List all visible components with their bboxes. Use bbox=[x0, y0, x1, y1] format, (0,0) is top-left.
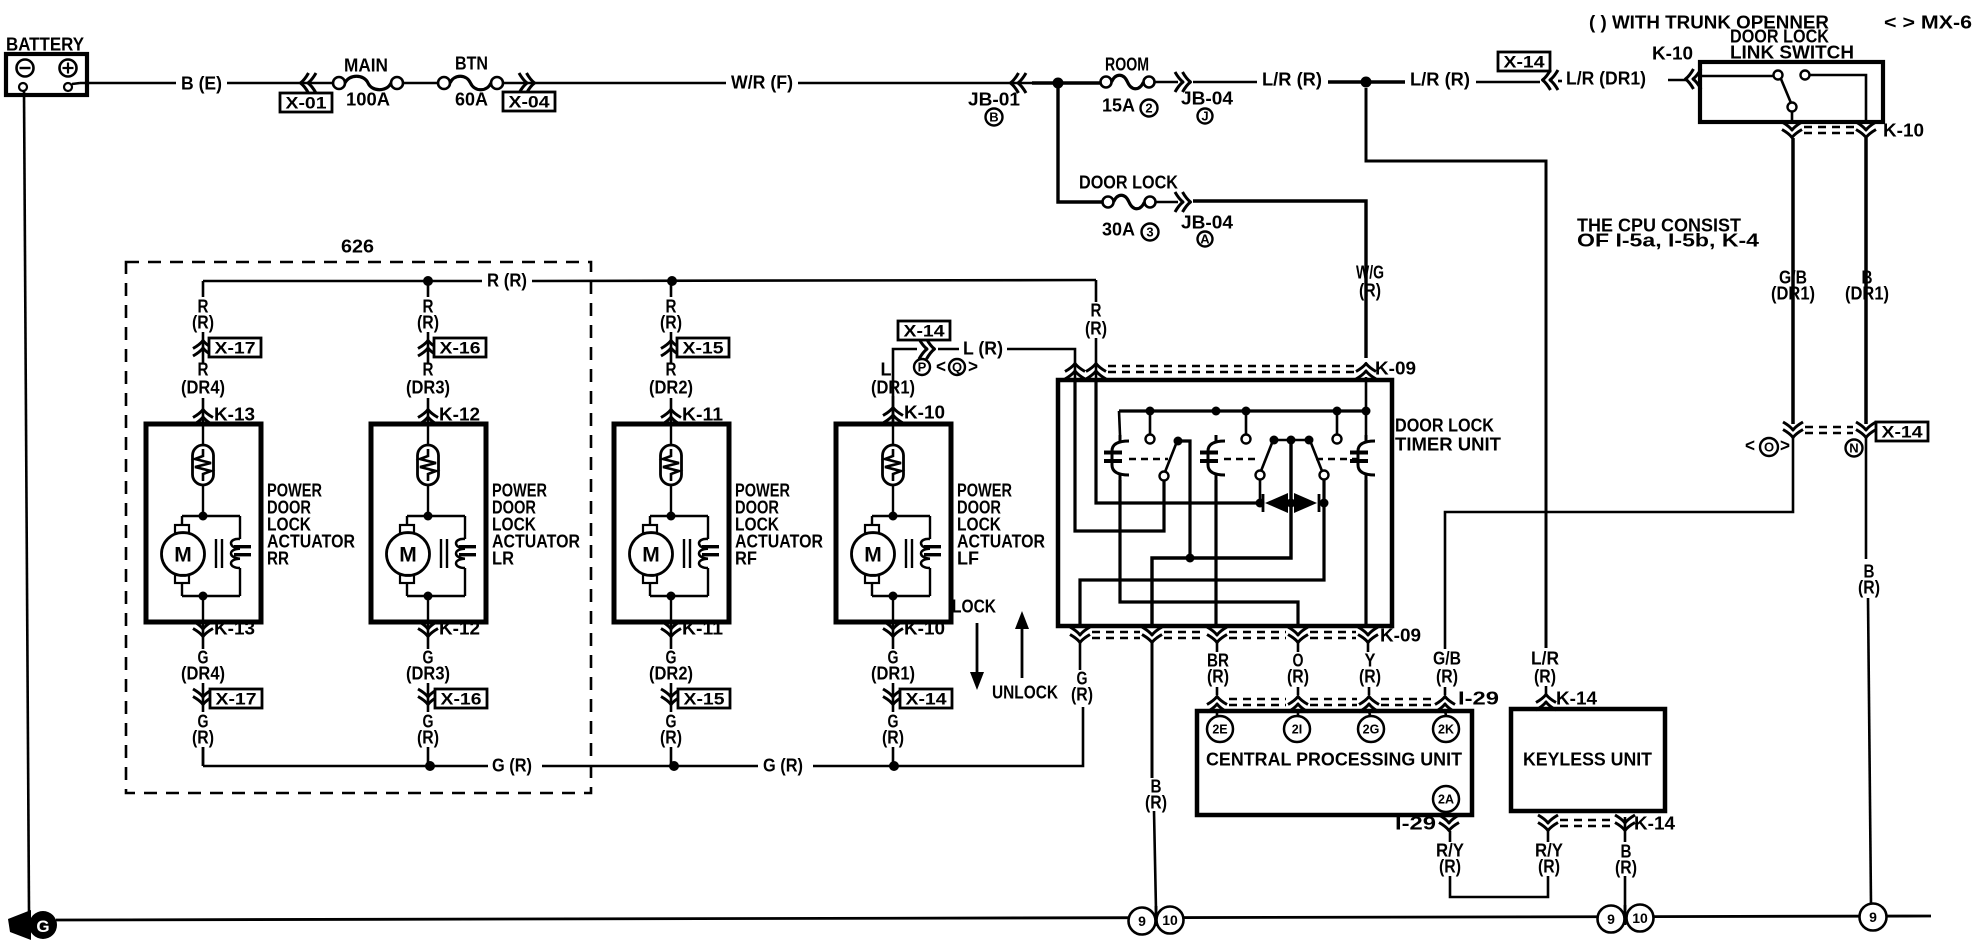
connector K-14 tie dashes (bottom) bbox=[1560, 819, 1613, 821]
relay switch 1 pivot bbox=[1174, 437, 1183, 446]
ground node 9 (mid) bbox=[1598, 906, 1625, 933]
circled N marker bbox=[1846, 440, 1863, 457]
svg-text:X-14: X-14 bbox=[1504, 52, 1546, 71]
wire to X-15 (RF bottom) bbox=[670, 683, 673, 712]
wire B (R) down to ground bbox=[1865, 438, 1868, 559]
diode D1 bbox=[1262, 494, 1265, 512]
svg-text:O: O bbox=[1764, 440, 1774, 455]
svg-text:30A: 30A bbox=[1102, 219, 1135, 240]
connector JB-04 circled J bbox=[1198, 109, 1213, 124]
wire X-14 to L/R(DR1) label bbox=[1558, 80, 1562, 83]
connector I-29 tie dashes 1 bbox=[1229, 698, 1286, 700]
wire B(E) to X-01 bbox=[227, 82, 334, 85]
svg-text:(DR2): (DR2) bbox=[649, 377, 693, 398]
svg-text:R (R): R (R) bbox=[487, 270, 527, 291]
svg-text:2G: 2G bbox=[1363, 723, 1380, 737]
connector X-14 chevron (top) bbox=[1543, 70, 1559, 90]
wire out of actuator LF bottom bbox=[892, 622, 895, 649]
svg-text:(R): (R) bbox=[192, 727, 214, 748]
connector K-11 chevron (RF bottom) bbox=[661, 621, 681, 637]
relay center switch pivot left bbox=[1270, 436, 1279, 445]
wire G/B (DR1) bbox=[1791, 138, 1795, 424]
fuse MAIN 100A bbox=[333, 77, 345, 89]
wire 2G stub bbox=[1369, 710, 1370, 716]
connector X-04 chevron bbox=[519, 73, 535, 93]
wire 2I stub bbox=[1297, 710, 1300, 716]
svg-text:(R): (R) bbox=[417, 312, 439, 333]
svg-text:(DR3): (DR3) bbox=[406, 377, 450, 398]
switch moving contact bbox=[1788, 103, 1797, 112]
svg-text:(DR1): (DR1) bbox=[871, 377, 915, 398]
wire W/R to JB-01 bbox=[798, 82, 1032, 85]
svg-text:(R): (R) bbox=[1615, 857, 1637, 878]
connector K-10 chevron (LF top) bbox=[883, 408, 903, 424]
junction node diode left bbox=[1256, 499, 1265, 508]
svg-text:M: M bbox=[174, 544, 192, 567]
svg-text:(R): (R) bbox=[882, 727, 904, 748]
wire Y output bbox=[1367, 643, 1370, 652]
connector X-17 chevron (RR top) bbox=[193, 341, 213, 357]
svg-text:RR: RR bbox=[267, 548, 289, 569]
wire out of actuator RF bottom bbox=[670, 622, 673, 649]
connector K-11 chevron (RF top) bbox=[661, 410, 681, 426]
connector K-10 chevron left (below switch) bbox=[1782, 122, 1802, 138]
connector I-29 chevron x1298 bbox=[1288, 697, 1308, 713]
wire into K-11 (RF) bbox=[670, 398, 673, 424]
connector K-09 tie dashes (top) bbox=[1108, 365, 1354, 367]
wire out of actuator RR bottom bbox=[202, 622, 205, 649]
junction node bus contact2 bbox=[1242, 407, 1251, 416]
wire LR to ground rail bbox=[427, 747, 430, 766]
wire junction to second L/R label bbox=[1366, 80, 1405, 83]
connector X-14 chevron right (B) bbox=[1856, 422, 1876, 438]
svg-text:K-12: K-12 bbox=[439, 404, 480, 425]
door lock timer unit box bbox=[1058, 380, 1392, 626]
svg-text:X-15: X-15 bbox=[684, 689, 725, 708]
wire B output lower bbox=[1154, 811, 1156, 910]
cpu pin 2I bbox=[1284, 716, 1310, 742]
connector X-01 label box bbox=[280, 93, 332, 112]
svg-text:(R): (R) bbox=[1538, 856, 1560, 877]
svg-text:15A: 15A bbox=[1102, 95, 1135, 116]
svg-text:(R): (R) bbox=[1287, 666, 1309, 687]
switch common contact bbox=[1774, 71, 1783, 80]
svg-text:(DR3): (DR3) bbox=[406, 663, 450, 684]
wire fuse to JB-04 (door lock) bbox=[1156, 201, 1178, 204]
wire bus stub contact3 bbox=[1336, 411, 1339, 434]
wire R/Y U link bbox=[1450, 876, 1548, 897]
central processing unit box bbox=[1197, 711, 1472, 815]
svg-text:10: 10 bbox=[1162, 912, 1178, 928]
relay actuation dashed link 2 bbox=[1224, 458, 1260, 460]
wire coil1 to O output bbox=[1120, 480, 1298, 626]
svg-text:X-14: X-14 bbox=[1882, 422, 1924, 441]
connector X-17 label box (RR bottom) bbox=[210, 689, 262, 708]
wire right contact drop bbox=[1080, 479, 1324, 626]
ground G symbol bbox=[8, 910, 31, 940]
wire ground rail right bbox=[813, 707, 1083, 766]
relay coil 2 (unlock) bbox=[1208, 441, 1225, 475]
svg-text:K-14: K-14 bbox=[1556, 688, 1598, 709]
wire to X-16 (LR top) bbox=[427, 332, 430, 363]
wire 2A out bbox=[1446, 812, 1447, 817]
svg-text:W/R (F): W/R (F) bbox=[731, 72, 793, 93]
svg-text:2E: 2E bbox=[1212, 723, 1227, 737]
connector I-29 chevron (2A) bbox=[1439, 815, 1459, 831]
svg-text:X-14: X-14 bbox=[904, 321, 946, 340]
svg-text:(R): (R) bbox=[660, 727, 682, 748]
fuse DOOR LOCK 30A bbox=[1103, 197, 1114, 208]
svg-text:626: 626 bbox=[341, 236, 374, 257]
svg-text:(R): (R) bbox=[1071, 684, 1093, 705]
relay coil 3 (timer) bbox=[1358, 441, 1375, 475]
svg-text:K-09: K-09 bbox=[1375, 358, 1416, 379]
wire G/B into I-29 bbox=[1444, 687, 1447, 695]
wire O to I-29 bbox=[1297, 687, 1300, 695]
svg-text:K-13: K-13 bbox=[214, 404, 255, 425]
svg-text:K-10: K-10 bbox=[1883, 120, 1924, 141]
connector K-09 tie dashes bottom 1 bbox=[1092, 631, 1140, 633]
svg-text:X-04: X-04 bbox=[509, 92, 551, 111]
ground node 9 (right) bbox=[1860, 904, 1887, 931]
junction node bus coil2 bbox=[1212, 407, 1221, 416]
relay switch 1 arm bbox=[1165, 444, 1176, 472]
relay center switch left arm bbox=[1261, 443, 1272, 471]
connector K-10 chevron (LF bottom) bbox=[883, 621, 903, 637]
connector K-14 chevron (keyless B) bbox=[1615, 815, 1635, 831]
connector JB-04 circled A bbox=[1198, 232, 1213, 247]
svg-text:<: < bbox=[1745, 435, 1755, 456]
connector X-14 chevron (LF) bbox=[919, 339, 935, 359]
wire R(R) down to timer bbox=[1095, 280, 1098, 302]
connector X-14 label box (LF) bbox=[898, 321, 950, 340]
connector X-15 label box (RF bottom) bbox=[678, 689, 730, 708]
svg-text:(DR1): (DR1) bbox=[871, 663, 915, 684]
svg-text:(R): (R) bbox=[1359, 280, 1381, 301]
relay actuation dashed link 1 bbox=[1129, 458, 1168, 460]
junction node bus W/G bbox=[1362, 407, 1371, 416]
svg-text:P: P bbox=[918, 360, 927, 375]
connector K-12 chevron (LR top) bbox=[418, 410, 438, 426]
wire battery negative down bbox=[24, 91, 29, 912]
svg-text:(R): (R) bbox=[1359, 666, 1381, 687]
connector X-04 label box bbox=[503, 92, 555, 111]
fuse ROOM 15A bbox=[1101, 77, 1112, 88]
wire between fuses bbox=[403, 82, 438, 85]
wire bottom ground rail bbox=[56, 916, 1931, 920]
svg-text:2A: 2A bbox=[1438, 793, 1454, 807]
cpu pin 2A bbox=[1433, 786, 1459, 812]
junction node rail RF bbox=[669, 761, 679, 771]
wire JB-01 to junction bbox=[1032, 81, 1058, 85]
svg-text:B (E): B (E) bbox=[181, 73, 222, 94]
svg-text:M: M bbox=[399, 544, 417, 567]
svg-text:K-10: K-10 bbox=[904, 618, 945, 639]
connector JB-01 circled B bbox=[986, 109, 1003, 126]
svg-text:(R): (R) bbox=[660, 312, 682, 333]
wire B output bbox=[1151, 643, 1154, 778]
wire out of actuator LR bottom bbox=[427, 622, 430, 649]
svg-text:B: B bbox=[989, 110, 998, 125]
wire L/R to junction bbox=[1328, 80, 1366, 83]
wire R(R) into timer bbox=[1095, 338, 1098, 382]
wire battery positive to B(E) bbox=[72, 83, 80, 84]
svg-text:BTN: BTN bbox=[455, 53, 488, 74]
wire Y to I-29 bbox=[1368, 687, 1371, 695]
wire coil3 feed bbox=[1365, 411, 1368, 435]
svg-text:(R): (R) bbox=[1207, 666, 1229, 687]
power door lock actuator RF bbox=[614, 424, 729, 622]
power door lock actuator RR bbox=[146, 424, 261, 622]
wire to X-17 (RR bottom) bbox=[202, 683, 205, 712]
connector X-16 label box (LR top) bbox=[434, 338, 486, 357]
wire RR to ground rail bbox=[202, 747, 205, 766]
wire BR output bbox=[1216, 643, 1219, 652]
unlock arrow bbox=[1021, 625, 1024, 678]
svg-text:LINK SWITCH: LINK SWITCH bbox=[1730, 42, 1854, 63]
svg-text:2K: 2K bbox=[1438, 723, 1454, 737]
keyless unit box bbox=[1511, 709, 1665, 811]
connector JB-04 chevron (room) bbox=[1175, 72, 1191, 92]
svg-text:(DR1): (DR1) bbox=[1845, 283, 1889, 304]
wire bus stub contact2 bbox=[1245, 411, 1248, 434]
wire switch1 pivot to drop bbox=[1178, 441, 1190, 558]
connector K-10 chevron (into switch) bbox=[1686, 69, 1702, 89]
wire R(R) drop to actuator RR bbox=[202, 281, 205, 297]
svg-text:L/R (R): L/R (R) bbox=[1410, 69, 1470, 90]
svg-text:BATTERY: BATTERY bbox=[6, 34, 85, 55]
connector X-14 chevron left (G/B) bbox=[1783, 422, 1803, 438]
connector K-09 chevron bottom x1368 bbox=[1358, 627, 1378, 643]
wire keyless B out bbox=[1624, 817, 1627, 842]
cpu pin 2E bbox=[1207, 716, 1233, 742]
connector X-16 label box (LR bottom) bbox=[435, 689, 487, 708]
connector K-09 chevron (W/G) bbox=[1356, 364, 1376, 380]
svg-text:9: 9 bbox=[1869, 909, 1877, 925]
power door lock actuator LR bbox=[371, 424, 486, 622]
connector I-29 chevron x1445 bbox=[1435, 697, 1455, 713]
svg-text:<: < bbox=[936, 356, 946, 377]
wire to X-17 (RR top) bbox=[202, 332, 205, 363]
svg-text:9: 9 bbox=[1138, 913, 1146, 929]
relay center switch right arm bbox=[1311, 443, 1322, 471]
junction node main bus bbox=[1053, 78, 1064, 89]
svg-text:LR: LR bbox=[492, 548, 514, 569]
svg-text:J: J bbox=[1201, 109, 1208, 124]
wire K-14 into keyless bbox=[1545, 707, 1548, 711]
626 model dashed outline bbox=[126, 262, 591, 793]
svg-text:(R): (R) bbox=[1145, 792, 1167, 813]
svg-text:L/R (R): L/R (R) bbox=[1262, 69, 1322, 90]
svg-text:A: A bbox=[1200, 232, 1210, 247]
svg-text:LOCK: LOCK bbox=[952, 596, 997, 617]
junction node bus contact3 bbox=[1333, 407, 1342, 416]
connector K-14 chevron (keyless top) bbox=[1536, 695, 1556, 711]
wire junction down to door lock fuse bbox=[1058, 88, 1102, 202]
relay center switch bar bbox=[1274, 439, 1309, 442]
wire into switch bbox=[1702, 75, 1773, 78]
junction node L/R branch bbox=[1361, 77, 1372, 88]
wire bus stub contact1 bbox=[1149, 411, 1152, 434]
wire left contact to diode row bbox=[1259, 479, 1262, 503]
junction node rail LF bbox=[889, 761, 899, 771]
wire into K-10 (LF) bbox=[892, 396, 895, 424]
svg-text:100A: 100A bbox=[346, 89, 390, 110]
wire L/R into K-14 bbox=[1545, 686, 1548, 694]
connector K-09 tie dashes bottom 2 bbox=[1164, 631, 1205, 633]
relay center switch pivot mid bbox=[1287, 436, 1296, 445]
connector I-29 chevron x1369 bbox=[1359, 697, 1379, 713]
svg-text:G (R): G (R) bbox=[763, 755, 803, 776]
svg-text:X-01: X-01 bbox=[286, 93, 327, 112]
svg-text:(DR4): (DR4) bbox=[181, 663, 225, 684]
battery box bbox=[6, 54, 87, 95]
connector K-14 chevron (keyless R/Y) bbox=[1538, 815, 1558, 831]
svg-text:K-14: K-14 bbox=[1634, 813, 1676, 834]
wire switch to box bottom bbox=[1791, 111, 1794, 124]
svg-text:K-09: K-09 bbox=[1380, 625, 1421, 646]
connector I-29 chevron x1217 bbox=[1207, 697, 1227, 713]
connector X-15 label box (RF top) bbox=[677, 338, 729, 357]
battery minus terminal bbox=[17, 60, 34, 77]
wire B (DR1) bbox=[1864, 138, 1868, 424]
svg-text:CENTRAL PROCESSING UNIT: CENTRAL PROCESSING UNIT bbox=[1206, 749, 1463, 770]
battery negative post bbox=[19, 83, 27, 91]
wire W/G into timer bbox=[1365, 377, 1368, 411]
wire into K-13 (RR) bbox=[202, 398, 205, 424]
wire BR to I-29 bbox=[1216, 687, 1219, 695]
svg-text:DOOR LOCK: DOOR LOCK bbox=[1079, 172, 1179, 193]
svg-text:KEYLESS UNIT: KEYLESS UNIT bbox=[1523, 749, 1653, 770]
battery plus terminal bbox=[60, 60, 77, 77]
wire L/R(DR1) to K-10 bbox=[1668, 79, 1686, 82]
junction node rail at LR actuator bbox=[423, 276, 433, 286]
connector X-14 label box (LF bottom) bbox=[900, 689, 952, 708]
svg-text:K-12: K-12 bbox=[439, 618, 480, 639]
wire keyless B to ground bbox=[1624, 876, 1627, 910]
connector X-16 chevron (LR bottom) bbox=[418, 689, 438, 705]
door lock link switch box bbox=[1700, 62, 1883, 122]
connector K-09 tie dashes bottom 3 bbox=[1229, 631, 1286, 633]
connector K-12 chevron (LR bottom) bbox=[418, 621, 438, 637]
relay coil 1 (lock) bbox=[1112, 441, 1129, 475]
svg-text:(R): (R) bbox=[1858, 577, 1880, 598]
wire B between ground nodes (left pair) bbox=[1155, 906, 1158, 926]
wire coil2 to BR output bbox=[1214, 480, 1217, 626]
wire B(E) segment from battery bbox=[80, 82, 176, 85]
wire R(R) drop to actuator LR bbox=[427, 281, 430, 297]
connector X-15 chevron (RF bottom) bbox=[661, 689, 681, 705]
wire keyless R/Y up bbox=[1547, 831, 1550, 842]
wire coil3 to Y output bbox=[1364, 480, 1367, 626]
wire bus to coil1 bbox=[1119, 411, 1120, 435]
wire center pivot down bbox=[1152, 440, 1291, 626]
wire to X-15 (RF top) bbox=[670, 332, 673, 363]
wire 2K stub bbox=[1445, 710, 1446, 716]
svg-text:N: N bbox=[1849, 441, 1858, 456]
relay switch 1 moving contact bbox=[1160, 472, 1169, 481]
connector K-09 chevron bottom x1217 bbox=[1207, 627, 1227, 643]
connector X-01 chevron bbox=[301, 73, 317, 93]
connector X-17 label box (RR top) bbox=[209, 338, 261, 357]
svg-text:UNLOCK: UNLOCK bbox=[992, 682, 1059, 703]
svg-text:60A: 60A bbox=[455, 89, 488, 110]
connector K-10 tie dashes bbox=[1804, 126, 1854, 128]
wire to X-14 (LF bottom) bbox=[892, 683, 895, 712]
wire LF corner to X-14 bbox=[893, 349, 917, 424]
wire R(R) drop to actuator RF bbox=[670, 281, 673, 297]
connector X-14 tie dashes bbox=[1805, 426, 1853, 428]
circled P marker bbox=[914, 359, 930, 375]
svg-text:K-13: K-13 bbox=[214, 618, 255, 639]
svg-text:X-16: X-16 bbox=[441, 689, 482, 708]
junction node rail at RF actuator bbox=[667, 276, 677, 286]
svg-text:(R): (R) bbox=[1534, 666, 1556, 687]
svg-text:X-15: X-15 bbox=[683, 338, 724, 357]
connector K-09 chevron bottom x1298 bbox=[1288, 627, 1308, 643]
timer internal supply bus bbox=[1119, 409, 1368, 412]
svg-text:(R): (R) bbox=[192, 312, 214, 333]
switch second contact bbox=[1801, 71, 1810, 80]
svg-text:(DR2): (DR2) bbox=[649, 663, 693, 684]
relay contact 3 (fixed) bbox=[1333, 435, 1342, 444]
svg-text:>: > bbox=[1780, 435, 1790, 456]
svg-text:(R): (R) bbox=[1439, 856, 1461, 877]
svg-text:JB-04: JB-04 bbox=[1181, 88, 1234, 109]
svg-text:I-29: I-29 bbox=[1395, 813, 1436, 834]
wire X-14 to L(R) label bbox=[938, 348, 959, 351]
svg-text:(R): (R) bbox=[1436, 666, 1458, 687]
svg-text:(DR4): (DR4) bbox=[181, 377, 225, 398]
junction node rail LR bbox=[425, 761, 435, 771]
cpu pin 2K bbox=[1433, 716, 1459, 742]
connector X-14 label box (right) bbox=[1876, 422, 1928, 441]
wire B (R) lower bbox=[1868, 598, 1871, 905]
junction node bus contact1 bbox=[1146, 407, 1155, 416]
svg-text:< > MX-6: < > MX-6 bbox=[1884, 12, 1972, 33]
svg-text:OF I-5a, I-5b, K-4: OF I-5a, I-5b, K-4 bbox=[1577, 230, 1760, 251]
connector K-09 chevron bottom x1080 bbox=[1070, 627, 1090, 643]
wire diode row mid segment bbox=[1288, 502, 1294, 505]
svg-text:TIMER UNIT: TIMER UNIT bbox=[1395, 434, 1502, 455]
wire BTN fuse to X-04 bbox=[503, 82, 538, 85]
relay contact 1 (fixed) bbox=[1146, 435, 1155, 444]
relay center switch right contact bbox=[1320, 471, 1329, 480]
switch arm bbox=[1781, 79, 1791, 103]
connector K-09 tie dashes bottom 4 bbox=[1310, 631, 1356, 633]
wire ROOM fuse to JB-04 bbox=[1155, 81, 1178, 84]
connector X-15 chevron (RF top) bbox=[661, 341, 681, 357]
connector I-29 tie dashes 3 bbox=[1381, 698, 1433, 700]
relay center switch pivot right bbox=[1305, 436, 1314, 445]
cpu pin 2G bbox=[1358, 716, 1384, 742]
svg-text:M: M bbox=[864, 544, 882, 567]
svg-text:10: 10 bbox=[1632, 910, 1648, 926]
wire second contact to right bbox=[1810, 75, 1866, 124]
relay center switch left contact bbox=[1256, 471, 1265, 480]
wire into K-12 (LR) bbox=[427, 398, 430, 424]
svg-text:RF: RF bbox=[735, 548, 757, 569]
connector JB-01 chevron bbox=[1011, 73, 1027, 93]
svg-text:X-16: X-16 bbox=[440, 338, 481, 357]
wire W/G run to timer bbox=[1193, 201, 1366, 358]
svg-text:LF: LF bbox=[957, 548, 979, 569]
ground node 10 (mid) bbox=[1627, 905, 1654, 932]
battery positive post bbox=[64, 83, 72, 91]
fuse DOOR LOCK circled 3 bbox=[1142, 224, 1159, 241]
wire keyless B between ground nodes (mid pair) bbox=[1624, 905, 1627, 925]
connector K-09 chevron bottom x1152 bbox=[1142, 627, 1162, 643]
